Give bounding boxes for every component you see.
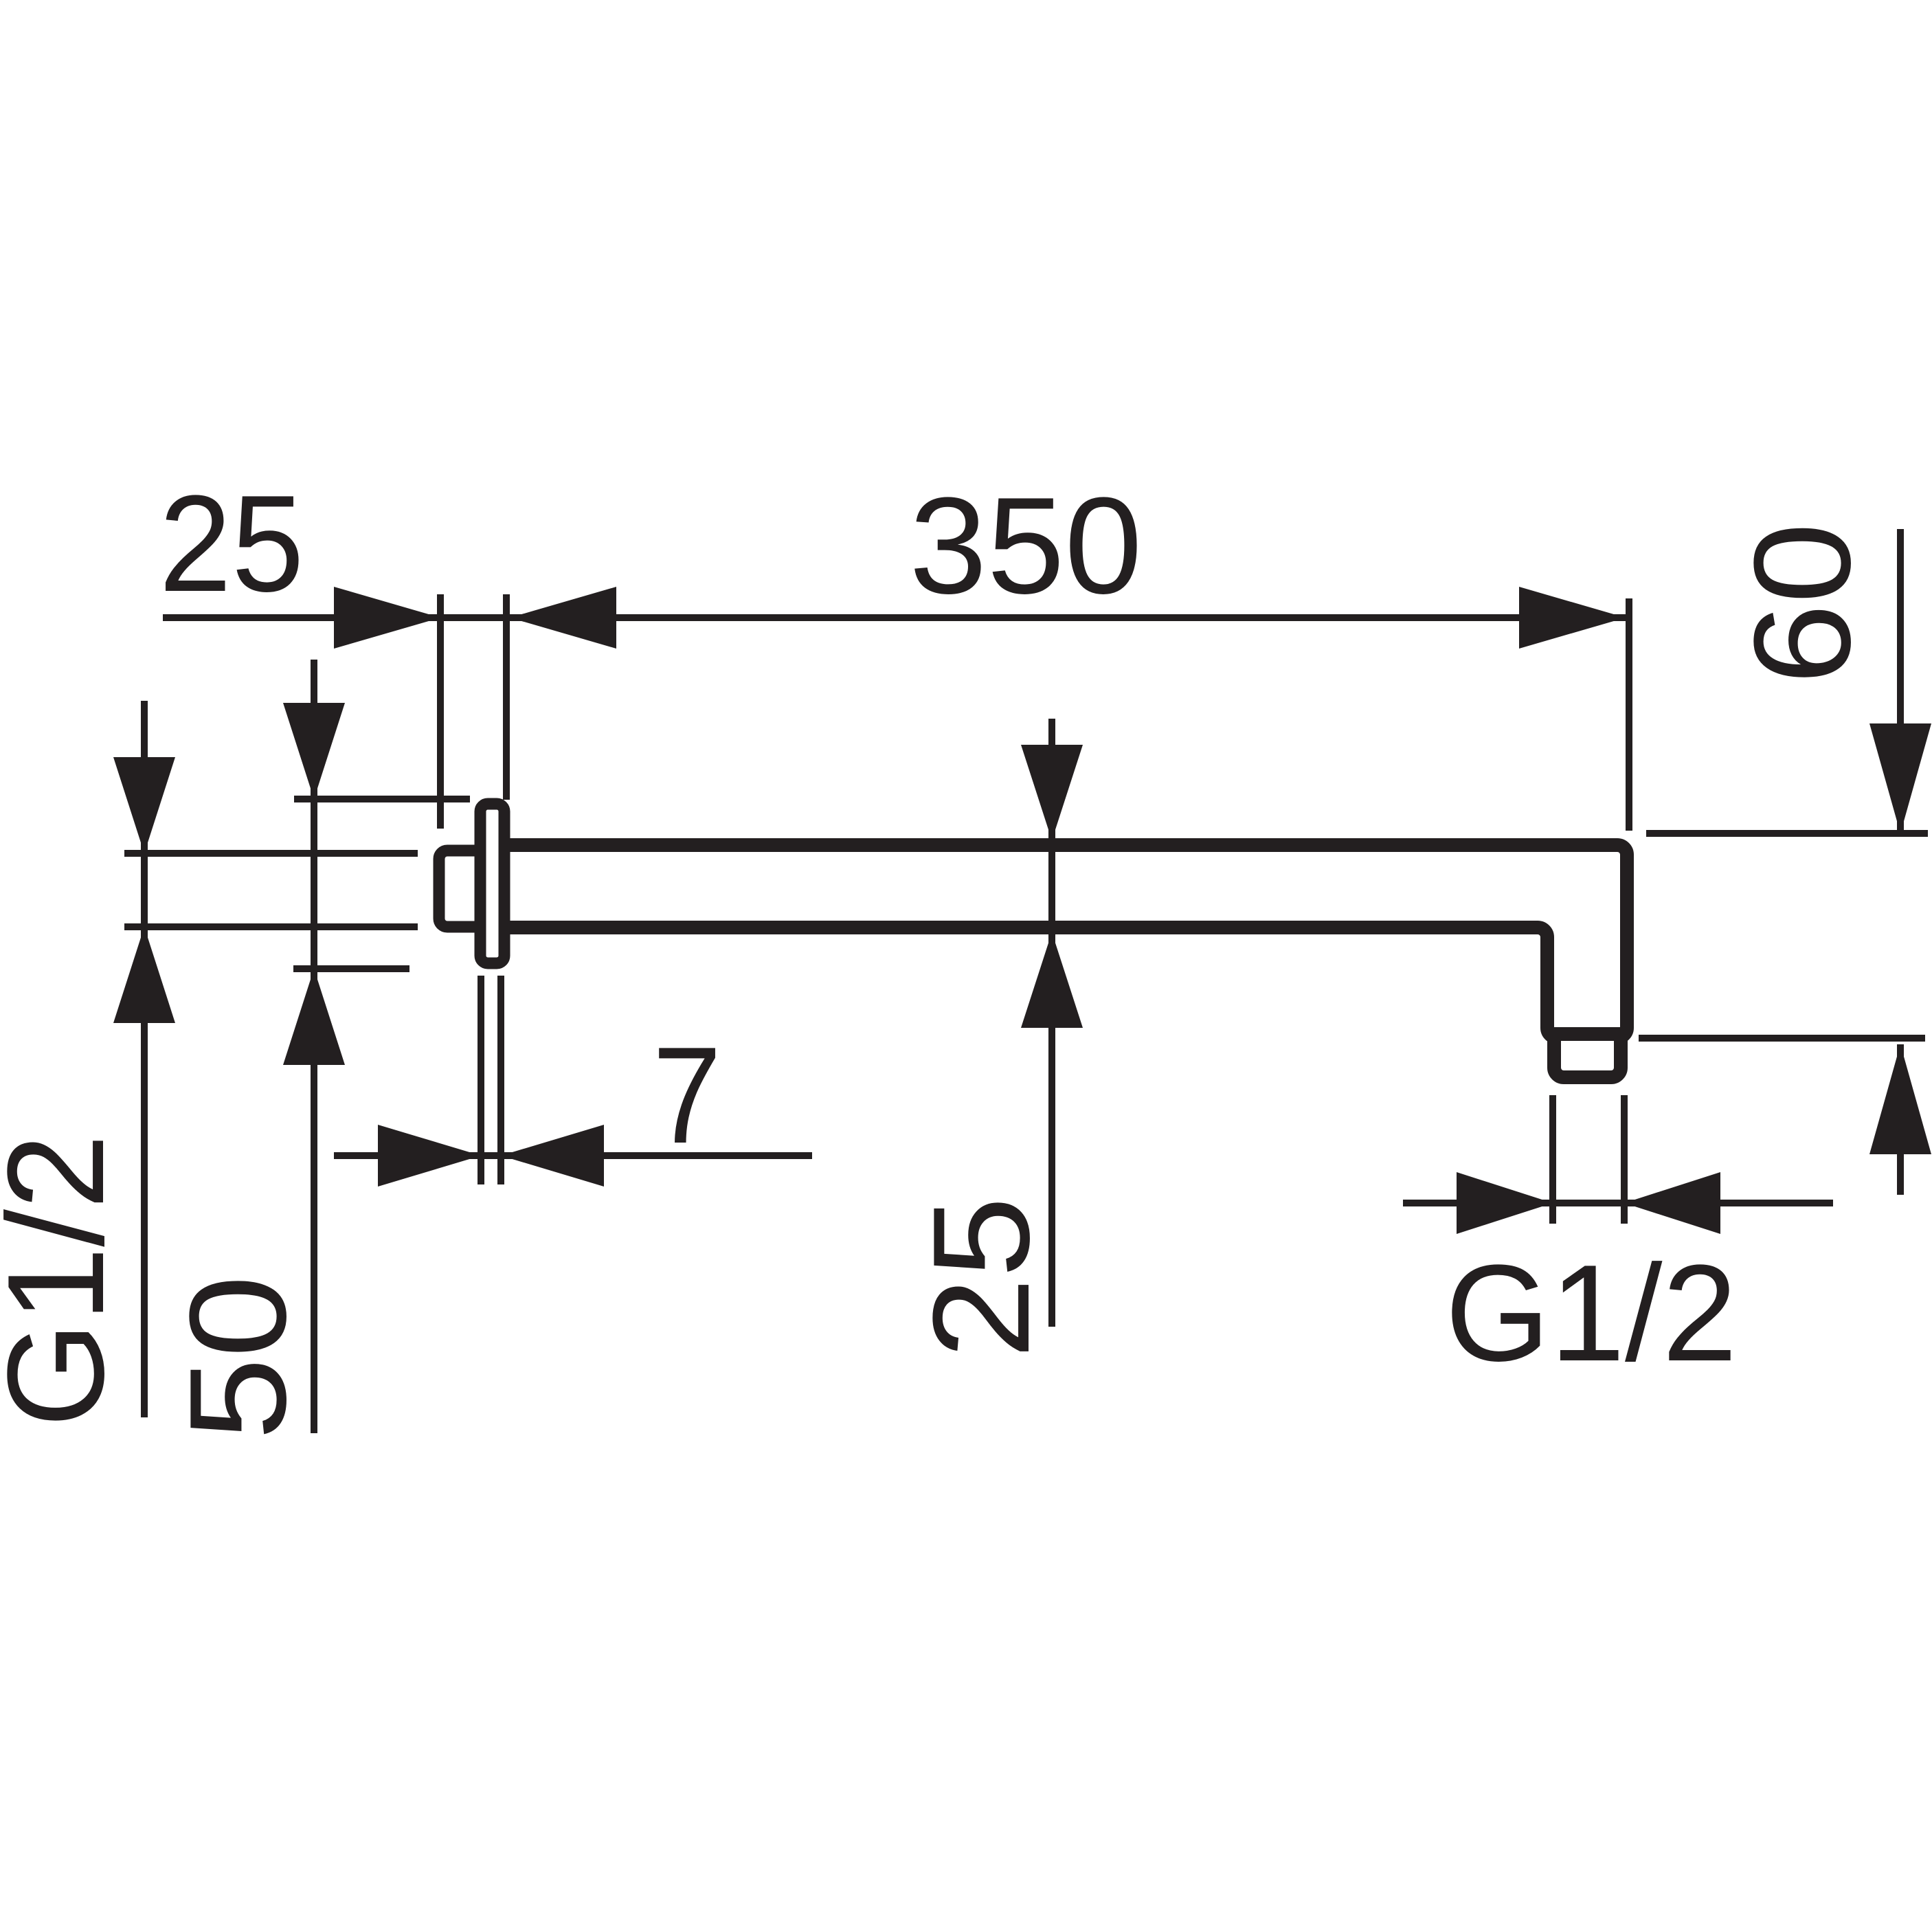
extension line E8 (flange top, 50 dim) xyxy=(294,796,470,802)
outlet stub G1/2 xyxy=(1554,1034,1621,1077)
extension line E10 (flange left face, 7 dim) xyxy=(478,976,484,1184)
wall nipple G1/2 (left connector) xyxy=(439,851,494,927)
svg-text:60: 60 xyxy=(1726,523,1879,685)
extension line E1 (nipple end, top 25 dim) xyxy=(437,594,444,829)
dimension line D8 (G1/2 bottom horizontal) xyxy=(1403,1200,1833,1206)
arrowhead A13 left (7) xyxy=(501,1125,604,1187)
svg-text:25: 25 xyxy=(159,467,304,620)
dimension line D6 (25 mid vertical) xyxy=(1048,719,1055,1327)
extension line E4 (arm top, 60 dim) xyxy=(1646,830,1928,837)
extension line E7 (nipple bottom, G1/2 dim) xyxy=(124,923,418,930)
svg-text:G1/2: G1/2 xyxy=(1446,1237,1738,1390)
arrowhead A2 left (350) xyxy=(510,587,616,649)
arrowhead A14 right (G1/2 bottom) xyxy=(1457,1172,1553,1234)
arrowhead A9 up (50) xyxy=(283,969,345,1065)
arrowhead A1 right (25 top) xyxy=(334,587,440,649)
arrowhead A6 down (G1/2 left) xyxy=(113,757,175,853)
dimension line D5 (50 vertical) xyxy=(311,660,317,1433)
extension line E2 (flange face, top 25 dim) xyxy=(503,594,510,800)
shower arm tube: top edge, elbow, end collar, bottom edge xyxy=(510,845,1627,1037)
svg-text:350: 350 xyxy=(910,469,1143,622)
arrowhead A10 down (25 mid) xyxy=(1021,745,1083,840)
dimension line D1-D2 (25 / 350 horizontal) xyxy=(163,614,1626,621)
arrowhead A15 left (G1/2 bottom) xyxy=(1624,1172,1720,1234)
arrowhead A7 up (G1/2 left) xyxy=(113,927,175,1023)
dimension line D3 upper (60) xyxy=(1897,529,1904,833)
dimension line D7 (7 horizontal) xyxy=(334,1152,812,1159)
extension line E12 (outlet left, bottom G1/2 dim) xyxy=(1549,1095,1556,1224)
extension line E5 (outlet end, 60 dim) xyxy=(1639,1035,1925,1042)
arrowhead A12 right (7) xyxy=(378,1125,481,1187)
svg-text:G1/2: G1/2 xyxy=(0,1134,133,1428)
svg-text:50: 50 xyxy=(161,1275,315,1440)
arrowhead A11 up (25 mid) xyxy=(1021,932,1083,1028)
arrowhead A5 up (60) xyxy=(1869,1044,1931,1154)
arrowhead A4 down (60) xyxy=(1869,723,1931,833)
svg-text:25: 25 xyxy=(905,1197,1058,1359)
dimension line D3 lower (60) xyxy=(1897,1044,1904,1195)
extension line E11 (flange right face, 7 dim) xyxy=(497,976,504,1184)
dimension line D4 (G1/2 left vertical) xyxy=(141,701,148,1417)
svg-text:7: 7 xyxy=(653,1019,721,1172)
extension line E6 (nipple top, G1/2 dim) xyxy=(124,850,418,857)
extension line E13 (outlet right, bottom G1/2 dim) xyxy=(1621,1095,1628,1224)
arrowhead A3 right (350) xyxy=(1519,587,1626,649)
extension line E3 (arm end, 350 dim) xyxy=(1626,598,1632,831)
arrowhead A8 down (50) xyxy=(283,703,345,799)
wall flange plate xyxy=(480,804,504,963)
extension line E9 (flange bottom, 50 dim) xyxy=(293,965,409,972)
